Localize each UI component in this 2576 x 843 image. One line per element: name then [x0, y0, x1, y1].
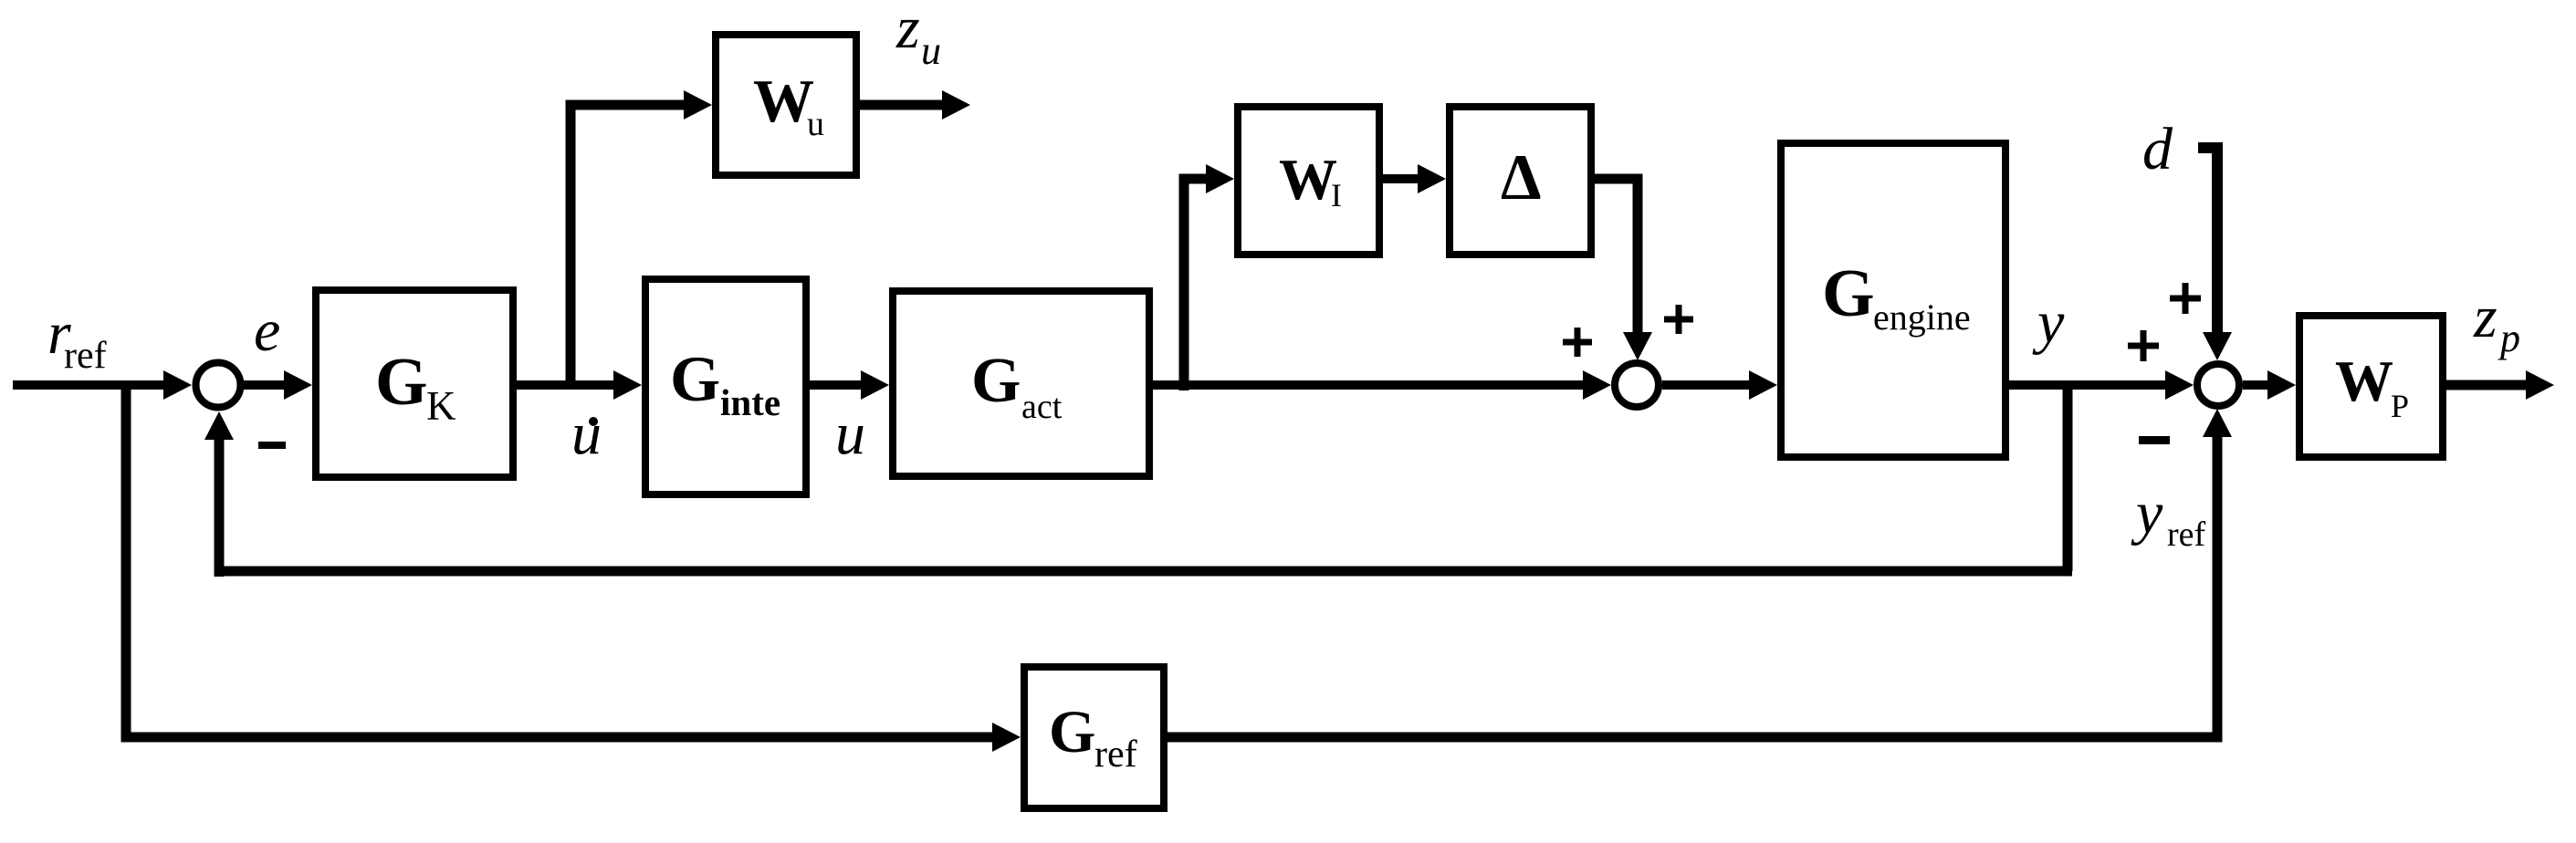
svg-text:I: I: [1331, 177, 1342, 213]
wire W_u output: [860, 100, 946, 110]
block G_inte: [645, 279, 806, 494]
label plus right of S2: [1664, 305, 1693, 334]
arrowhead into S2 from left: [1583, 370, 1611, 400]
svg-text:W: W: [2335, 349, 2393, 413]
svg-text:ref: ref: [1094, 734, 1137, 775]
arrowhead into W_u: [684, 90, 712, 120]
arrowhead into S3 from top: [2203, 332, 2232, 360]
svg-text:z: z: [2473, 284, 2497, 350]
wire G_K to G_inte: [517, 380, 619, 390]
wire G_act to S2: [1153, 380, 1586, 390]
wire branch up to W_I: [1184, 179, 1209, 390]
block G_act: [893, 291, 1149, 476]
arrowhead into G_act: [861, 370, 889, 400]
label plus above S3: [2170, 283, 2201, 314]
wire W_I to Delta: [1383, 174, 1422, 183]
svg-text:d: d: [2142, 116, 2173, 182]
arrowhead into S3 from below: [2203, 409, 2232, 437]
block W_I: [1238, 107, 1379, 255]
summing junction S3: [2197, 364, 2239, 406]
arrowhead into G_K: [284, 370, 312, 400]
svg-text:y: y: [2032, 289, 2065, 356]
arrowhead into S3 from left: [2165, 370, 2194, 400]
svg-text:Δ: Δ: [1501, 142, 1542, 213]
label minus at S1: [258, 442, 286, 449]
svg-text:W: W: [1279, 147, 1337, 212]
svg-text:K: K: [426, 383, 456, 429]
svg-text:engine: engine: [1873, 297, 1971, 338]
svg-text:G: G: [1049, 699, 1095, 765]
arrowhead into W_P: [2267, 370, 2296, 400]
block G_ref: [1024, 667, 1164, 808]
arrowhead into W_I: [1206, 164, 1234, 193]
arrowhead into G_engine: [1749, 370, 1777, 400]
wire feedback tap down from y line: [2063, 380, 2073, 571]
label plus left of S3: [2128, 330, 2159, 361]
wire G_inte to G_act: [810, 380, 865, 390]
svg-text:e: e: [254, 297, 280, 364]
svg-text:G: G: [971, 346, 1021, 416]
wire W_P output: [2446, 380, 2527, 390]
wire d input: [2198, 148, 2217, 338]
svg-text:u: u: [835, 401, 865, 467]
arrowhead into S2 from top: [1623, 332, 1652, 360]
arrowhead into Delta: [1418, 164, 1446, 193]
arrowhead z_u output: [942, 90, 970, 120]
arrowhead into S1 from below: [204, 411, 234, 440]
block W_u: [716, 35, 856, 175]
svg-text:W: W: [753, 68, 814, 135]
svg-text:G: G: [1822, 256, 1875, 331]
wire feedback horizontal to S1: [219, 567, 2072, 577]
svg-text:P: P: [2391, 388, 2409, 424]
arrowhead into G_inte: [613, 370, 642, 400]
svg-text:u: u: [807, 105, 824, 143]
wire feedback up into S1: [215, 436, 225, 577]
wire G_engine to S3: [2009, 380, 2169, 390]
label u-dot: [571, 401, 602, 467]
wire r_ref branch down to G_ref: [126, 380, 993, 737]
label minus below S3: [2139, 436, 2170, 444]
wire S2 to G_engine: [1662, 380, 1753, 390]
arrowhead into summing junction S1: [163, 370, 192, 400]
svg-text:z: z: [895, 0, 920, 61]
svg-text:act: act: [1021, 388, 1063, 426]
svg-text:u: u: [571, 401, 602, 467]
svg-text:p: p: [2497, 316, 2520, 360]
svg-text:G: G: [670, 344, 720, 415]
svg-text:G: G: [375, 345, 428, 420]
label plus left of S2: [1563, 328, 1592, 357]
block G_engine: [1781, 143, 2005, 457]
summing junction S2: [1615, 363, 1659, 407]
label z_p: [2473, 284, 2520, 360]
block G_K: [316, 290, 513, 477]
block W_P: [2299, 316, 2443, 457]
summing junction S1: [196, 363, 241, 408]
svg-text:ref: ref: [2167, 515, 2206, 554]
svg-text:inte: inte: [720, 381, 780, 423]
arrowhead z_p output: [2526, 370, 2554, 400]
svg-text:u: u: [921, 28, 941, 73]
wire Delta to S2 top: [1595, 179, 1638, 338]
svg-text:ref: ref: [64, 335, 107, 377]
wire G_ref to S3 bottom: [1168, 435, 2217, 737]
wire branch up to W_u: [571, 105, 686, 390]
label r_ref: [47, 300, 107, 377]
svg-text:y: y: [2131, 480, 2163, 546]
wire r_ref input: [13, 380, 173, 390]
label z_u: [895, 0, 941, 73]
wire S1 to G_K: [244, 380, 290, 390]
block Delta: [1450, 107, 1591, 255]
arrowhead into G_ref: [992, 723, 1021, 752]
label y_ref: [2131, 480, 2206, 554]
wire S3 to W_P: [2243, 380, 2271, 390]
